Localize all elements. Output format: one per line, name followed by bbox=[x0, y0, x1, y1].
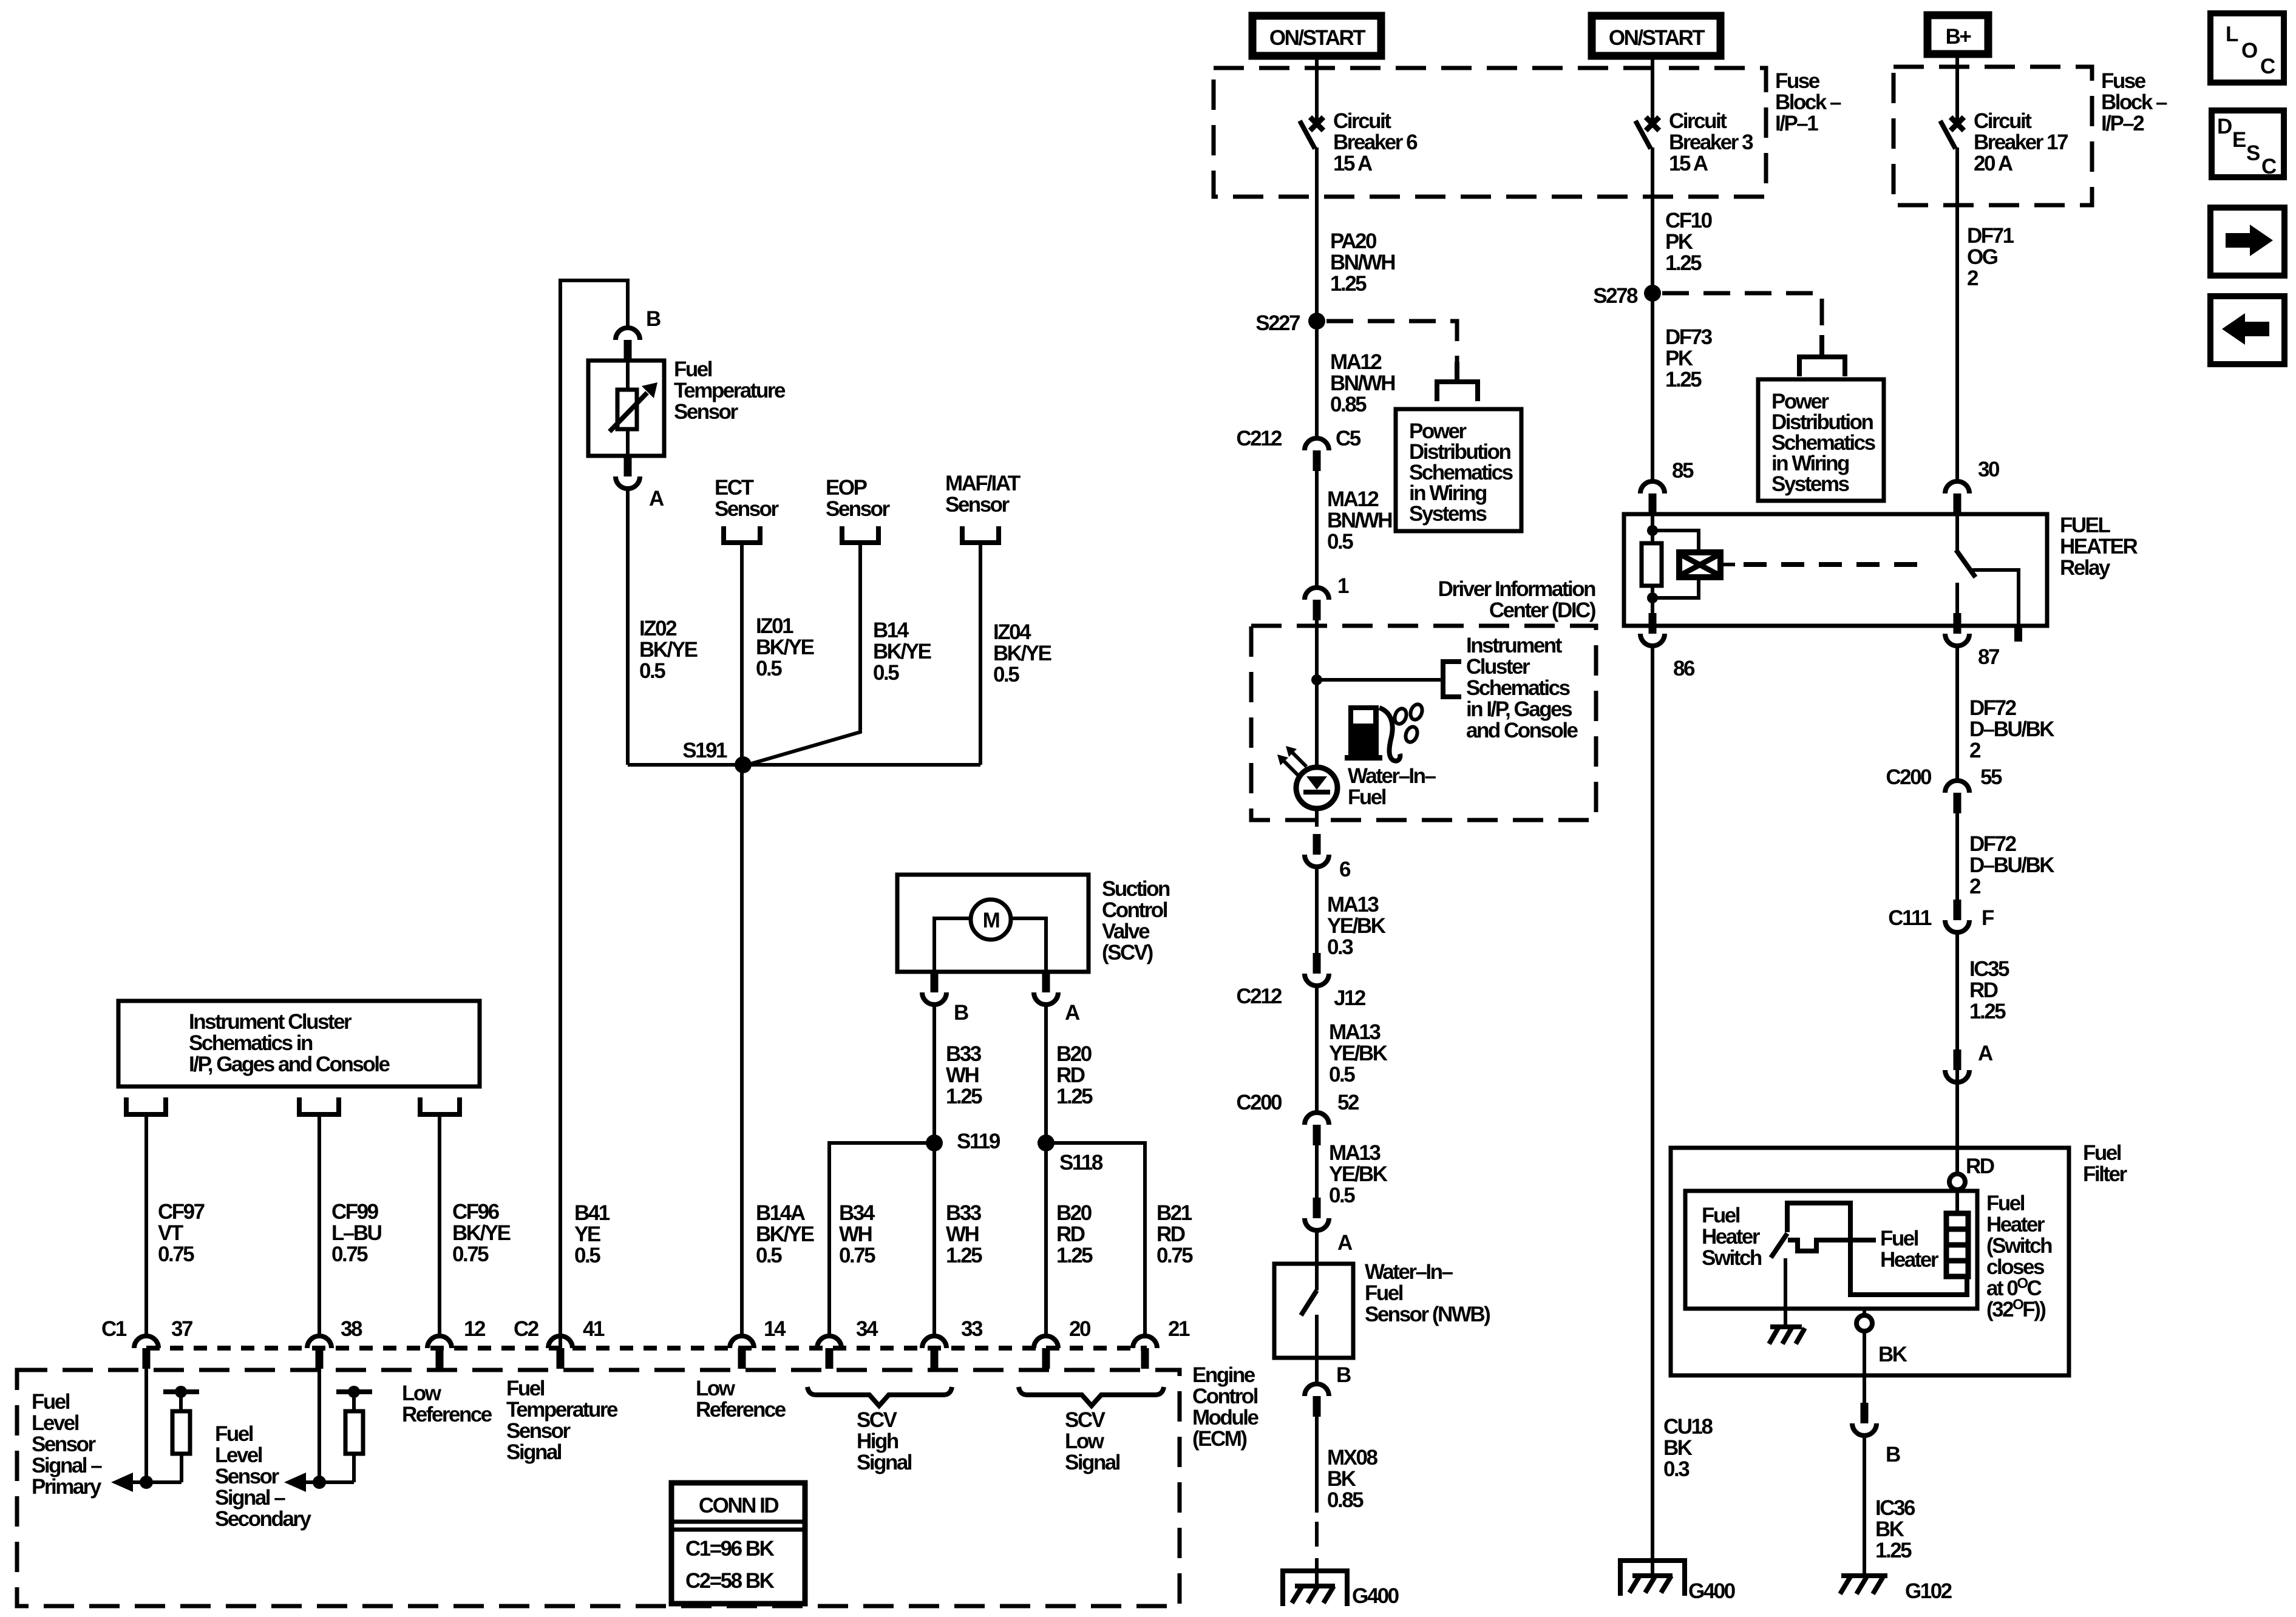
splice S191 bbox=[735, 756, 752, 773]
wire LED to DIC pin 6 bbox=[1315, 808, 1319, 827]
svg-text:C200: C200 bbox=[1886, 765, 1932, 789]
wire inside DIC (pin1 to LED) bbox=[1315, 620, 1319, 767]
svg-text:B33WH1.25: B33WH1.25 bbox=[946, 1042, 982, 1108]
relay coil branch to valve bbox=[1652, 531, 1699, 598]
relay actuating dashed link bbox=[1720, 563, 1735, 566]
wire to instrument cluster bracket bbox=[1317, 678, 1441, 682]
connector row dotted line bbox=[146, 1346, 1147, 1351]
svg-text:C: C bbox=[2261, 155, 2277, 178]
wire MX08 solid part bbox=[1315, 1417, 1319, 1513]
wire DF71 (breaker 17 to pin 30) bbox=[1955, 205, 1959, 368]
svg-text:D: D bbox=[2217, 115, 2232, 138]
svg-text:C1: C1 bbox=[101, 1317, 127, 1341]
relay NO contact elbow bbox=[1972, 570, 2019, 626]
circuit breaker 3 bbox=[1635, 117, 1659, 197]
svg-text:C2=58 BK: C2=58 BK bbox=[685, 1569, 775, 1593]
svg-text:A: A bbox=[1065, 1001, 1080, 1025]
legend box DESC bbox=[2212, 110, 2284, 178]
terminal circle BK bbox=[1856, 1315, 1872, 1331]
wire MA13 0.5 (C200 to sensor pin A) bbox=[1315, 1145, 1319, 1198]
icon fuel drops bbox=[1393, 703, 1424, 744]
connector ECM pin 20 bbox=[1034, 1336, 1058, 1369]
svg-text:34: 34 bbox=[856, 1317, 878, 1341]
wire MX08 dashed part bbox=[1315, 1522, 1319, 1586]
svg-text:B: B bbox=[954, 1001, 968, 1025]
splice S278 bbox=[1644, 285, 1661, 302]
connector ECM pin 12 bbox=[427, 1336, 452, 1369]
connector ECM pin 41 bbox=[548, 1336, 572, 1369]
circuit breaker 6 bbox=[1300, 117, 1323, 197]
connector C212/C5 bbox=[1305, 438, 1329, 471]
instrument cluster reference box bbox=[118, 1001, 480, 1086]
wire from ON/START left into fuse block bbox=[1315, 56, 1319, 120]
connector ECM pin 38 bbox=[307, 1336, 331, 1369]
circuit breaker 17 bbox=[1940, 117, 1964, 205]
wire through sensor bbox=[626, 361, 630, 456]
wire CF10 (breaker 3 to S278) bbox=[1651, 197, 1654, 293]
off-page bracket (power distribution ref 1) bbox=[1437, 362, 1478, 401]
fuel heater switch ground wire bbox=[1784, 1258, 1787, 1327]
svg-text:33: 33 bbox=[961, 1317, 983, 1341]
fuse block I/P-1 dashed box bbox=[1214, 68, 1766, 197]
svg-text:C: C bbox=[2260, 55, 2275, 78]
icon fuel pump hose bbox=[1379, 708, 1400, 761]
ECM dashed box bbox=[17, 1370, 1180, 1606]
ground G102 bbox=[1840, 1576, 1887, 1594]
connector ECM pin 33 bbox=[922, 1336, 946, 1369]
connector ECM pin 14 bbox=[730, 1336, 754, 1369]
svg-text:38: 38 bbox=[341, 1317, 362, 1341]
reference box Power Distribution Schematics in Wiring Systems (left) bbox=[1396, 409, 1521, 531]
wire pin 38 internal bbox=[318, 1369, 321, 1482]
relay coil junction upper bbox=[1647, 525, 1658, 536]
dashed reference wire from S278 bbox=[1662, 293, 1822, 337]
connector C200/52 bbox=[1305, 1113, 1329, 1145]
water-in-fuel sensor box bbox=[1274, 1264, 1353, 1358]
chassis ground at switch bbox=[1769, 1327, 1805, 1344]
cluster bracket pin 38 bbox=[299, 1097, 339, 1114]
svg-text:F: F bbox=[1982, 906, 1994, 930]
connector pin B fuel heater bbox=[1852, 1403, 1877, 1436]
connector pin 6 of DIC bbox=[1305, 834, 1329, 867]
sensor resistor element bbox=[617, 390, 637, 429]
svg-text:C111: C111 bbox=[1888, 906, 1932, 930]
sensor lower contact wire bbox=[1315, 1315, 1319, 1385]
svg-text:12: 12 bbox=[464, 1317, 486, 1341]
svg-text:CONN ID: CONN ID bbox=[699, 1494, 779, 1517]
brace SCV low signal bbox=[1019, 1387, 1164, 1406]
FUEL HEATER relay box bbox=[1624, 514, 2047, 626]
power feed box ON/START (left) bbox=[1252, 16, 1381, 56]
connector pin A SCV bbox=[1034, 972, 1058, 1005]
fuel level sensor secondary resistor bbox=[336, 1386, 372, 1482]
svg-text:B: B bbox=[1886, 1443, 1900, 1466]
svg-text:S191: S191 bbox=[682, 739, 727, 762]
off-page bracket (power distribution ref 2) bbox=[1799, 335, 1845, 376]
connector C200/55 bbox=[1945, 781, 1969, 813]
connector pin A water-in-fuel sensor bbox=[1305, 1198, 1329, 1230]
wire pin 30 stub bbox=[1955, 368, 1959, 481]
svg-text:B: B bbox=[1336, 1363, 1351, 1387]
svg-text:G400: G400 bbox=[1688, 1579, 1736, 1603]
wire IC36 (to ground G102) bbox=[1863, 1436, 1866, 1573]
relay switch common wire bbox=[1955, 514, 1959, 551]
svg-text:30: 30 bbox=[1978, 458, 2000, 481]
svg-text:BK: BK bbox=[1878, 1343, 1907, 1366]
wire CF97 (cluster to pin 37) bbox=[144, 1117, 148, 1334]
wire MA12 0.85 (S227 to C212/C5) bbox=[1315, 321, 1319, 438]
wire CF96 (cluster to pin 12) bbox=[438, 1117, 441, 1334]
ECT sensor bracket bbox=[724, 526, 760, 543]
svg-text:S: S bbox=[2246, 141, 2260, 165]
cluster bracket pin 37 bbox=[126, 1097, 166, 1114]
svg-text:A: A bbox=[1337, 1231, 1353, 1255]
legend box LOC bbox=[2210, 13, 2284, 83]
ground G400 (relay ground) bbox=[1618, 1561, 1687, 1596]
svg-text:O: O bbox=[2241, 39, 2257, 63]
relay coil junction lower bbox=[1647, 592, 1658, 603]
relay coil resistor bbox=[1642, 543, 1662, 586]
wire IZ02 (sensor A to S191) bbox=[626, 489, 630, 765]
svg-text:S227: S227 bbox=[1255, 311, 1300, 335]
icon fuel pump body bbox=[1345, 705, 1382, 761]
wire into sensor bbox=[1315, 1229, 1319, 1290]
wire from ON/START right into fuse block bbox=[1651, 56, 1654, 120]
svg-text:M: M bbox=[983, 909, 999, 932]
svg-text:S278: S278 bbox=[1593, 284, 1638, 308]
SCV internal wiring bbox=[934, 918, 1046, 972]
cluster bracket pin 12 bbox=[420, 1097, 460, 1114]
splice wire S191 bbox=[628, 763, 980, 767]
svg-text:C2: C2 bbox=[514, 1317, 539, 1341]
connector ECM pin 37 bbox=[134, 1336, 158, 1369]
icon fuel pump window bbox=[1353, 710, 1373, 724]
relay NO contact stub bbox=[2014, 626, 2022, 642]
splice S227 bbox=[1308, 313, 1325, 330]
wire B20 (S118 to pin 20) bbox=[1044, 1143, 1048, 1334]
svg-text:C5: C5 bbox=[1336, 427, 1361, 450]
fuel heater element bbox=[1946, 1213, 1968, 1276]
svg-text:B+: B+ bbox=[1946, 25, 1972, 49]
svg-text:52: 52 bbox=[1337, 1091, 1359, 1114]
connector relay pin 30 bbox=[1945, 481, 1969, 514]
bracket instrument cluster reference bbox=[1443, 662, 1461, 697]
connector pin A fuel heater bbox=[1945, 1049, 1969, 1082]
wire loop top (B41 riser) bbox=[560, 280, 628, 1349]
svg-text:S119: S119 bbox=[957, 1130, 1000, 1153]
brace SCV high signal bbox=[807, 1387, 952, 1406]
water-in-fuel indicator LED circle bbox=[1296, 767, 1337, 808]
power feed box ON/START (right) bbox=[1592, 16, 1720, 56]
wire MA12 0.5 (C5 to DIC pin 1) bbox=[1315, 471, 1319, 588]
connector pin B SCV bbox=[922, 972, 946, 1005]
wire B33 (S119 to pin 33) bbox=[932, 1143, 936, 1334]
svg-text:86: 86 bbox=[1673, 657, 1695, 680]
power feed box B+ bbox=[1927, 15, 1988, 54]
legend box arrow right bbox=[2210, 208, 2284, 276]
svg-text:C212: C212 bbox=[1236, 985, 1282, 1008]
svg-text:37: 37 bbox=[171, 1317, 192, 1341]
svg-text:6: 6 bbox=[1339, 858, 1351, 881]
wire IZ04 (MAF to S191) bbox=[979, 545, 982, 765]
ground G400 (ECM ground) bbox=[1280, 1571, 1350, 1606]
LED light arrows bbox=[1277, 746, 1306, 775]
svg-text:C200: C200 bbox=[1236, 1091, 1282, 1114]
wire S119 branch to pin 34 bbox=[829, 1143, 934, 1334]
svg-text:G102: G102 bbox=[1905, 1579, 1952, 1603]
wire CU18 (pin 86 to ground) bbox=[1651, 646, 1654, 1573]
relay coil feed wire bbox=[1651, 514, 1654, 613]
fuel level sensor primary arrow bbox=[111, 1473, 182, 1492]
fuel heater inner box bbox=[1685, 1191, 1977, 1309]
svg-text:G400: G400 bbox=[1352, 1584, 1399, 1608]
connector ECM pin 34 bbox=[817, 1336, 841, 1369]
svg-text:55: 55 bbox=[1980, 765, 2002, 789]
EOP sensor bracket bbox=[842, 526, 878, 543]
connector relay pin 86 bbox=[1640, 613, 1665, 646]
connector C111/F bbox=[1945, 900, 1969, 932]
wire DF72 (C200 to C111) bbox=[1955, 813, 1959, 900]
junction dot pin 38 branch bbox=[313, 1476, 326, 1489]
sensor switch blade bbox=[1301, 1290, 1317, 1315]
wire PA20 (breaker 6 to S227) bbox=[1315, 197, 1319, 321]
wire B33 (SCV B to S119) bbox=[932, 1005, 936, 1143]
wire MA13 0.5 (J12 to C200/52) bbox=[1315, 985, 1319, 1113]
SCV motor circle bbox=[971, 900, 1011, 940]
svg-text:ON/START: ON/START bbox=[1269, 26, 1365, 50]
wire RD terminal to heater bbox=[1955, 1190, 1959, 1213]
wire IC35 (C111 to fuel filter) bbox=[1955, 931, 1959, 1175]
fuel heater switch bimetal notch bbox=[1788, 1240, 1876, 1251]
fuel temperature sensor box bbox=[588, 361, 664, 456]
svg-text:A: A bbox=[1978, 1042, 1993, 1065]
wire B20 (SCV A to S118) bbox=[1044, 1005, 1048, 1143]
CONN ID table box bbox=[671, 1483, 805, 1604]
terminal circle RD bbox=[1949, 1174, 1965, 1190]
connector pin A fuel temp sensor bbox=[616, 456, 640, 489]
svg-text:87: 87 bbox=[1978, 645, 1999, 669]
svg-text:C212: C212 bbox=[1236, 427, 1282, 450]
wire IZ01 (ECT to ECM pin 14) bbox=[740, 545, 744, 1334]
svg-text:S118: S118 bbox=[1059, 1151, 1103, 1175]
svg-text:1: 1 bbox=[1337, 574, 1349, 598]
CONN ID divider bbox=[671, 1522, 805, 1530]
connector ECM pin 21 bbox=[1133, 1336, 1157, 1369]
svg-text:85: 85 bbox=[1672, 459, 1694, 483]
connector pin 1 of DIC bbox=[1305, 588, 1329, 620]
junction dot pin 37 branch bbox=[140, 1476, 153, 1489]
svg-text:C1=96 BK: C1=96 BK bbox=[685, 1537, 775, 1561]
dashed reference wire from S227 bbox=[1326, 321, 1457, 364]
fuel heater switch blade bbox=[1771, 1233, 1787, 1258]
wire DF73 (S278 to relay pin 85) bbox=[1651, 293, 1654, 481]
svg-text:14: 14 bbox=[764, 1317, 786, 1341]
svg-text:21: 21 bbox=[1168, 1317, 1190, 1341]
heater return path bbox=[1787, 1203, 1967, 1295]
fuel level sensor primary resistor bbox=[163, 1386, 199, 1482]
junction node in DIC bbox=[1311, 674, 1322, 685]
splice S118 bbox=[1038, 1134, 1055, 1151]
svg-text:B33WH1.25: B33WH1.25 bbox=[946, 1201, 982, 1267]
svg-text:RD: RD bbox=[1966, 1154, 1994, 1178]
reference box Power Distribution Schematics in Wiring Systems (right) bbox=[1758, 379, 1884, 501]
LED triangle bbox=[1306, 776, 1327, 790]
wire S118 branch to pin 21 bbox=[1046, 1143, 1145, 1334]
relay valve element bbox=[1679, 552, 1720, 577]
svg-text:L: L bbox=[2226, 22, 2238, 46]
suction control valve box bbox=[897, 875, 1089, 972]
fuel level sensor secondary arrow bbox=[284, 1473, 354, 1492]
connector relay pin 85 bbox=[1640, 481, 1665, 514]
svg-text:E: E bbox=[2232, 128, 2246, 152]
LED cathode bar bbox=[1303, 790, 1330, 795]
connector relay pin 87 bbox=[1945, 613, 1969, 646]
svg-text:20: 20 bbox=[1069, 1317, 1091, 1341]
svg-text:B34WH0.75: B34WH0.75 bbox=[839, 1201, 875, 1267]
sensor variable arrow bbox=[610, 382, 657, 432]
svg-text:A: A bbox=[649, 487, 664, 510]
wire pin 37 internal bbox=[144, 1369, 148, 1482]
legend box arrow left bbox=[2210, 296, 2284, 364]
fuel filter outer box bbox=[1671, 1148, 2069, 1375]
connector pin B fuel temp sensor bbox=[616, 328, 640, 361]
svg-text:J12: J12 bbox=[1334, 986, 1366, 1010]
svg-text:B: B bbox=[646, 307, 661, 331]
svg-text:ON/START: ON/START bbox=[1609, 26, 1705, 50]
MAF/IAT sensor bracket bbox=[962, 526, 999, 543]
fuse block I/P-2 dashed box bbox=[1894, 67, 2092, 205]
wire DF72 (pin 87 down) bbox=[1955, 646, 1959, 781]
wire BK inside filter bbox=[1863, 1309, 1866, 1403]
svg-text:41: 41 bbox=[583, 1317, 605, 1341]
wire B14 (EOP to S191) bbox=[743, 545, 860, 766]
connector pin B sensor bbox=[1305, 1384, 1329, 1417]
connector C212/J12 bbox=[1305, 953, 1329, 986]
splice S119 bbox=[926, 1134, 943, 1151]
DIC dashed box bbox=[1251, 626, 1596, 820]
relay output wire to pin 87 bbox=[1955, 583, 1959, 613]
wire from B+ into fuse block bbox=[1955, 54, 1959, 120]
wire CF99 (cluster to pin 38) bbox=[318, 1117, 321, 1334]
relay switch blade bbox=[1956, 550, 1975, 577]
wire MA13 0.3 (pin6 to C212/J12) bbox=[1315, 866, 1319, 953]
